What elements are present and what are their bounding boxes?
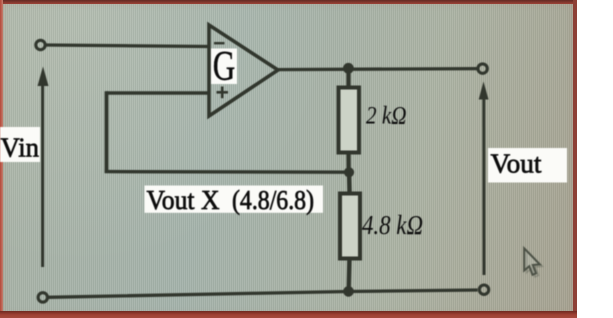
svg-text:4.8 kΩ: 4.8 kΩ	[362, 210, 423, 240]
terminal top-left open circle	[36, 40, 45, 49]
node C junction dot on bottom rail	[343, 286, 354, 297]
Vout X (4.8/6.8) white box	[145, 186, 324, 213]
wire resistor R2 to bottom rail	[346, 257, 351, 292]
Vin arrow line	[41, 84, 44, 267]
Vout arrow head	[479, 82, 489, 100]
op-amp U1 triangle	[209, 25, 278, 116]
terminal bottom-right open circle	[479, 285, 488, 294]
wire feedback vertical segment	[105, 91, 109, 173]
Vout label white box	[488, 148, 567, 183]
red frame bottom	[0, 311, 577, 318]
mouse cursor pointer ghost	[527, 250, 543, 276]
svg-text:Vout X: Vout X	[147, 185, 220, 215]
node A junction dot at op-amp output	[343, 63, 354, 74]
op-amp gain label G white box	[211, 49, 237, 85]
wire bottom rail	[48, 290, 478, 297]
red frame top	[0, 0, 577, 4]
resistor R2 4.8k body	[340, 194, 360, 259]
wire feedback bottom horizontal segment	[105, 170, 346, 174]
wire resistor R1 to node B	[346, 151, 351, 174]
terminal bottom-left open circle	[38, 293, 47, 302]
wire op-amp output to Vout terminal	[277, 69, 478, 70]
op-amp noninverting input plus sign	[217, 87, 229, 99]
wire node B to resistor R2	[347, 171, 352, 195]
wire node A to resistor R1	[346, 67, 350, 89]
red frame right	[573, 0, 577, 318]
op-amp inverting input minus sign	[214, 42, 225, 44]
svg-text:Vout: Vout	[491, 149, 542, 179]
mouse cursor pointer	[524, 248, 540, 274]
terminal top-right open circle	[478, 64, 487, 73]
svg-text:2 kΩ: 2 kΩ	[366, 103, 407, 130]
wire noninverting input from feedback to op-amp	[106, 91, 209, 95]
svg-text:Vin: Vin	[1, 133, 40, 163]
red frame left	[0, 0, 3, 318]
Vout arrow line	[482, 96, 485, 275]
resistor R1 2k body	[339, 88, 360, 153]
wire top from Vin terminal to op-amp inverting input	[45, 45, 209, 47]
node B junction dot between resistors	[344, 167, 354, 177]
svg-text:(4.8/6.8): (4.8/6.8)	[232, 185, 314, 215]
Vin label white box	[0, 127, 40, 162]
Vin arrow head	[38, 67, 49, 87]
svg-text:G: G	[213, 44, 236, 90]
